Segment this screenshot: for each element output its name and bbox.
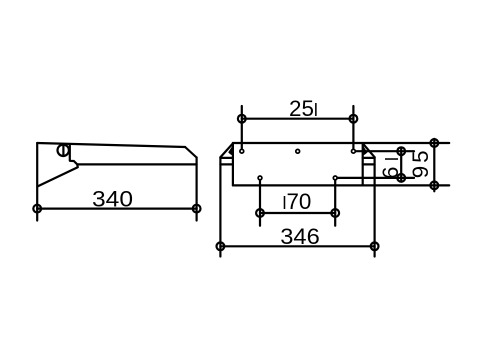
extension 61 top (from right top hole) [356,150,414,152]
side view second edge [77,163,196,165]
side view knob circle [58,145,69,156]
dim marker 95 bottom [430,182,438,190]
dim marker 170 left [256,209,264,217]
side view chamfer [185,147,197,158]
dim line 170 [260,212,335,214]
extension 251 left [241,106,243,149]
dim marker 340 right [193,205,201,213]
hole bottom-left [258,176,262,180]
side view right edge + extension line [196,158,198,221]
dim marker 61 bottom [397,174,405,182]
front view right edge [362,143,364,185]
svg-text:340: 340 [92,187,133,212]
hole top-center [296,149,300,153]
front view bottom edge + 95 bottom extension [233,184,449,186]
dim line 61 [400,148,402,182]
hole top-right [352,149,356,153]
svg-text:25l: 25l [289,96,318,121]
front view top edge + 95 top extension [233,142,449,144]
right wing diagonal [363,143,375,157]
dim line 251 [242,118,354,120]
svg-text:346: 346 [280,224,320,249]
dim marker 251 right [350,115,358,123]
dim line 346 [220,245,374,247]
dim line 95 [433,139,435,192]
dim marker 61 top [397,147,405,155]
left wing diagonal [220,143,233,157]
hole top-left [240,149,244,153]
side view step [70,144,78,167]
side view knob slot [62,145,64,156]
extension 251 right [352,106,354,149]
dim line 340 [37,208,196,210]
dim marker 251 left [238,115,246,123]
svg-text:l70: l70 [283,189,312,214]
side view left edge + extension line [36,143,38,221]
dim marker 170 right [331,209,339,217]
right wing fold lines [363,158,375,165]
dim marker 340 left [33,205,41,213]
front view left edge [232,143,234,185]
left corner weld triangle [228,145,233,155]
side view top edge [37,143,185,147]
extension 61 bottom (from right bottom hole) [338,177,414,179]
right corner weld triangle [363,145,368,155]
extension 170 left [259,181,261,226]
dim marker 346 left [217,242,225,250]
hole bottom-right [333,176,337,180]
svg-text:6l: 6l [378,152,403,179]
right wing outer edge + 346 extension [374,157,376,256]
dim marker 95 top [430,139,438,147]
left wing outer edge + 346 extension [219,157,221,256]
side view bottom diagonal [38,167,78,186]
dim marker 346 right [371,242,379,250]
extension 170 right [334,181,336,226]
left wing fold lines [220,158,233,165]
